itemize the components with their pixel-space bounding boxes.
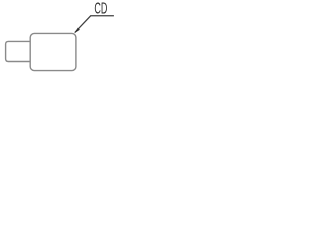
svg-text:CD: CD [94, 1, 107, 18]
